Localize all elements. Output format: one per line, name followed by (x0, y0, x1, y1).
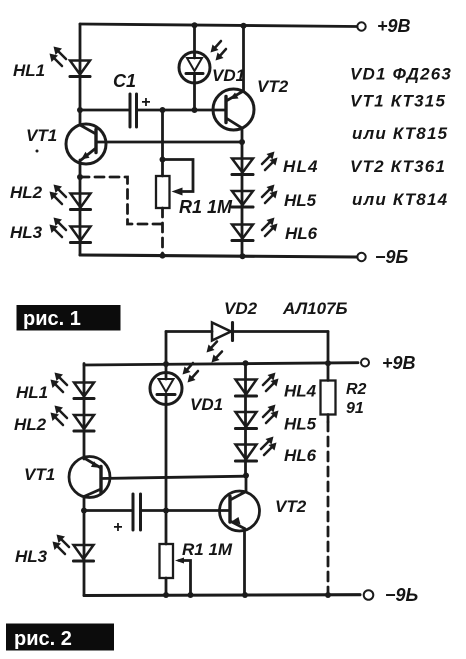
capacitor C1 (113, 71, 150, 127)
wire VT1 emitter down (fig.2) (83, 497, 86, 596)
wire VT2 collector down (fig.2) (243, 529, 246, 596)
node junction left/C1 (fig.1) (77, 107, 83, 113)
transistor VT2 (fig.2) (220, 476, 260, 532)
wire emitter dashed link (fig.1) (80, 177, 163, 224)
svg-text:HL6: HL6 (285, 224, 318, 243)
svg-text:+: + (141, 94, 150, 111)
transistor VT1 (fig.2) (69, 457, 110, 498)
node junction emitter/cap (fig.2) (81, 508, 87, 514)
svg-text:HL3: HL3 (10, 223, 43, 242)
wire R1 bottom dashed (fig.1) (161, 208, 164, 256)
LED HL5 (fig.1) (232, 185, 278, 208)
svg-text:+: + (113, 519, 122, 536)
svg-text:VT1 КТ315: VT1 КТ315 (350, 92, 446, 111)
node junction chain top (fig.2) (243, 360, 249, 366)
svg-text:HL5: HL5 (284, 415, 317, 434)
caption box fig.2 (6, 624, 114, 651)
svg-text:R1 1M: R1 1M (179, 197, 233, 217)
photodiode VD1 (fig.2) (150, 363, 198, 511)
svg-text:+9В: +9В (377, 16, 411, 36)
LED HL4 (fig.2) (236, 373, 279, 397)
node junction VD1 bottom (fig.1) (192, 107, 198, 113)
svg-text:HL1: HL1 (16, 383, 48, 402)
node junction base/emitter (fig.2) (243, 473, 249, 479)
svg-text:HL4: HL4 (284, 382, 317, 401)
transistor VT2 (fig.1) (213, 26, 254, 130)
svg-text:−9Б: −9Б (375, 247, 409, 267)
wire +9V top rail (fig.2) (84, 363, 358, 365)
wire R1 top (fig.2) (165, 511, 168, 545)
node junction rail (fig.1) (160, 253, 166, 259)
svg-text:VT2 КТ361: VT2 КТ361 (350, 157, 446, 176)
svg-text:C1: C1 (113, 71, 136, 91)
node junction dashed rail (fig.2) (325, 592, 331, 598)
rheostat R1 wiper arrow (fig.1) (172, 188, 183, 196)
svg-text:VD1: VD1 (190, 395, 223, 414)
svg-text:HL2: HL2 (14, 415, 47, 434)
svg-text:HL5: HL5 (284, 191, 317, 210)
svg-text:VT2: VT2 (257, 77, 289, 96)
node junction VT2 rail (fig.2) (242, 592, 248, 598)
wire R2 top (fig.2) (327, 363, 330, 380)
wire R1 bottom (fig.2) (165, 578, 168, 595)
node junction R2 top (fig.2) (325, 360, 331, 366)
wire left branch (fig.2) (83, 364, 86, 460)
capacitor C (fig.2) (84, 494, 230, 536)
svg-text:HL6: HL6 (284, 446, 317, 465)
LED HL5 (fig.2) (236, 405, 279, 429)
svg-text:VD2: VD2 (224, 299, 258, 318)
node junction VT2 emitter rail (fig.1) (241, 23, 247, 29)
svg-text:VD1: VD1 (212, 66, 245, 85)
svg-text:VD1 ФД263: VD1 ФД263 (350, 65, 452, 84)
node junction (fig.1) (160, 107, 166, 113)
node junction rail2 (fig.1) (240, 253, 246, 259)
LED HL1 (fig.1) (50, 47, 91, 77)
svg-text:HL1: HL1 (13, 61, 45, 80)
LED HL4 (fig.1) (232, 152, 278, 175)
wire -9V bottom rail (fig.2) (84, 593, 360, 597)
wire HL4-HL6 chain (fig.1) (241, 128, 244, 256)
svg-text:VT1: VT1 (24, 465, 55, 484)
node junction base/collector (fig.1) (239, 139, 245, 145)
wire to C1 (fig.1) (80, 109, 129, 112)
svg-text:АЛ107Б: АЛ107Б (282, 299, 348, 318)
resistor R1 1M (fig.1) (156, 176, 170, 208)
LED HL3 (fig.2) (53, 535, 94, 562)
wire VD2 right leg (fig.2) (327, 332, 330, 364)
LED HL2 (fig.2) (51, 406, 95, 432)
resistor R2 (fig.2) (321, 381, 336, 415)
node junction wiper (fig.1) (160, 157, 166, 163)
caption box fig.1 (17, 305, 121, 331)
wire VT1 base to VT2 collector (fig.1) (96, 141, 242, 144)
terminal +9V (fig.1) (357, 22, 365, 30)
wire R1 wiper link (fig.2) (179, 561, 191, 596)
wire HL4-HL6 chain (fig.2) (244, 363, 247, 476)
node junction VD1 top (fig.1) (192, 22, 198, 28)
svg-text:рис. 2: рис. 2 (14, 628, 72, 650)
wire VT1 emitter down (fig.1) (79, 160, 82, 255)
diode VD2 (fig.2) (166, 323, 328, 363)
LED HL6 (fig.2) (236, 437, 277, 462)
terminal -9V (fig.2) (364, 590, 374, 600)
rheostat R1 wiper arrow (fig.2) (175, 558, 184, 564)
terminal +9V (fig.2) (361, 359, 369, 367)
LED HL6 (fig.1) (232, 218, 278, 241)
svg-text:HL3: HL3 (15, 547, 48, 566)
svg-text:HL4: HL4 (283, 157, 319, 176)
svg-text:или КТ814: или КТ814 (352, 190, 448, 209)
LED HL2 (fig.1) (50, 185, 91, 210)
svg-text:+9В: +9В (382, 353, 416, 373)
wire C1 to VT2 base (fig.1) (137, 109, 227, 112)
svg-text:HL2: HL2 (10, 183, 43, 202)
LED HL1 (fig.2) (51, 373, 95, 399)
resistor R1 1M (fig.2) (160, 544, 174, 578)
svg-text:91: 91 (346, 400, 364, 417)
wire R2 bottom dashed (fig.2) (327, 415, 330, 423)
wire node to R1 top (fig.1) (161, 110, 164, 176)
node junction emitter (fig.1) (77, 174, 83, 180)
wire VT1 base (fig.2) (101, 476, 246, 478)
node junction R1 bottom rail (fig.2) (163, 592, 169, 598)
svg-text:VT2: VT2 (275, 497, 307, 516)
terminal -9V (fig.1) (357, 253, 365, 261)
svg-text:или КТ815: или КТ815 (352, 124, 448, 143)
node junction VD1 top (fig.2) (163, 361, 169, 367)
LED HL3 (fig.1) (50, 218, 91, 243)
photodiode VD1 (fig.1) (179, 25, 226, 110)
wire left branch top (fig.1) (79, 24, 82, 125)
wire +9V top rail (fig.1) (80, 24, 357, 27)
svg-text:рис. 1: рис. 1 (23, 308, 81, 330)
svg-text:R2: R2 (346, 381, 367, 398)
svg-text:VT1: VT1 (26, 126, 57, 145)
wire VD2 left leg (fig.2) (165, 332, 168, 365)
node junction cap/R1 (fig.2) (163, 508, 169, 514)
wire R1 wiper link (fig.1) (163, 160, 194, 192)
svg-text:−9Ь: −9Ь (385, 585, 419, 605)
svg-text:R1 1M: R1 1M (182, 540, 233, 559)
wire -9V bottom rail (fig.1) (80, 255, 357, 257)
transistor VT1 (fig.1) (66, 124, 106, 164)
node junction wiper rail (fig.2) (188, 592, 194, 598)
